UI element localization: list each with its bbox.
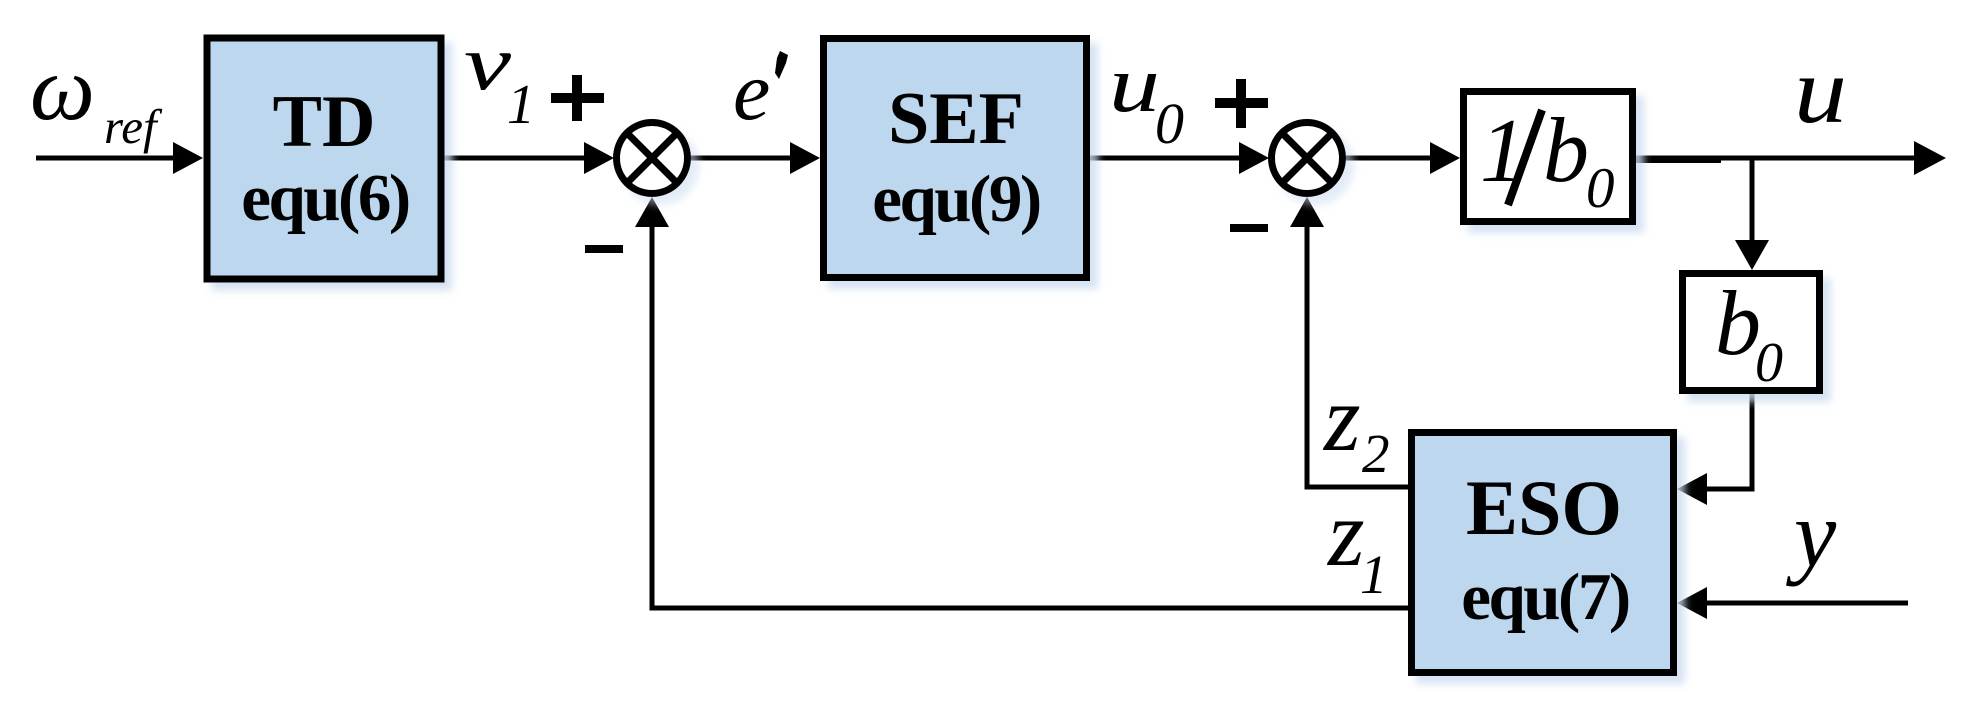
- svg-text:equ(7): equ(7): [1461, 560, 1629, 634]
- svg-text:0: 0: [1586, 157, 1615, 220]
- svg-text:1: 1: [507, 74, 535, 136]
- svg-text:equ(6): equ(6): [241, 161, 409, 235]
- svg-text:equ(9): equ(9): [872, 162, 1040, 236]
- svg-text:0: 0: [1755, 332, 1783, 394]
- svg-text:z: z: [1326, 482, 1365, 586]
- svg-text:TD: TD: [273, 81, 376, 163]
- svg-text:0: 0: [1155, 91, 1184, 156]
- svg-text:e: e: [733, 45, 770, 138]
- svg-text:v: v: [464, 19, 512, 106]
- svg-text:ESO: ESO: [1466, 464, 1622, 551]
- svg-text:y: y: [1786, 481, 1837, 587]
- svg-text:ωref: ωref: [30, 37, 163, 154]
- svg-text:z: z: [1322, 367, 1361, 471]
- svg-text:b: b: [1543, 99, 1589, 201]
- svg-text:u: u: [1109, 41, 1160, 129]
- svg-text:1: 1: [1360, 544, 1388, 605]
- svg-text:2: 2: [1362, 423, 1390, 484]
- svg-text:u: u: [1794, 39, 1847, 143]
- svg-text:SEF: SEF: [888, 78, 1024, 160]
